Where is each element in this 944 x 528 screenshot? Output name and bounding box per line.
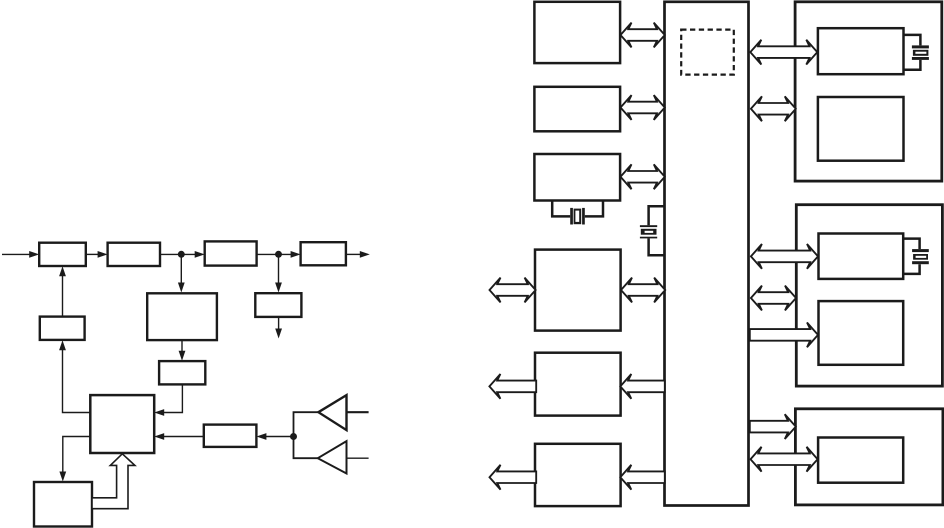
arrowhead into block E [178, 283, 185, 293]
arrowhead into block B [98, 251, 108, 258]
block R3 (osc block) [534, 154, 620, 201]
block D (output stage) [301, 242, 346, 265]
arrowhead into block I right side (bottom) [154, 433, 164, 440]
inner block M1b [818, 97, 904, 161]
container module 2 [796, 205, 942, 386]
double arrow MCU-module1 [751, 96, 796, 121]
arrowhead into block C [195, 251, 205, 258]
crystal Y2 body [641, 229, 657, 235]
buffer amp 1 (triangle) [318, 395, 346, 430]
arrow MCU to R6 [620, 465, 665, 490]
block E (detector) [147, 293, 217, 340]
crystal Y3 bracket [903, 35, 921, 46]
arrowhead into K top [59, 472, 66, 482]
arrow MCU to M2b [750, 323, 818, 348]
crystal Y3 body [913, 50, 929, 56]
inner block M3a [818, 438, 903, 483]
double arrow R2-MCU [621, 95, 665, 120]
container module 3 [795, 409, 943, 505]
junction node 3 [290, 433, 297, 440]
crystal Y4 plate top [912, 249, 929, 252]
wire B to C [160, 253, 197, 255]
wire bracket to buffers [294, 412, 319, 436]
crystal Y2 bracket [649, 206, 665, 225]
wire H down-left elbow to block I [163, 384, 182, 412]
crystal Y1 plate right [582, 208, 585, 225]
wire D to output [346, 253, 362, 255]
crystal Y2 plate top [640, 225, 657, 227]
wire block I to K elbow [63, 437, 91, 475]
double arrow MCU-M3a [751, 447, 818, 472]
wire junction1 down to block E [180, 254, 182, 285]
block K (reference) [34, 482, 92, 527]
crystal Y1 bracket [552, 200, 570, 217]
wire input signal [2, 253, 31, 255]
inner block M2a [819, 234, 904, 279]
crystal Y2 plate bottom [640, 237, 657, 239]
arrowhead into block F [275, 283, 282, 293]
central MCU block [665, 2, 749, 506]
wire bracket to buffer 2 [294, 437, 318, 459]
wire F down output [278, 317, 280, 331]
wire G up to block A [62, 273, 64, 317]
arrowhead into G bottom [59, 340, 66, 350]
crystal Y3 plate bottom [912, 57, 929, 60]
block I (control logic) [90, 395, 154, 453]
block A (input stage) [39, 243, 86, 266]
inner block M2b [819, 301, 904, 365]
double arrow MCU-M2a [751, 244, 818, 269]
wire J to I [163, 436, 204, 438]
arrow R6 output left [490, 465, 537, 490]
wire junction2 down to block F [278, 254, 280, 285]
container module 1 [795, 2, 942, 181]
crystal Y3 plate top [912, 45, 929, 48]
double arrow MCU-module2 [751, 286, 796, 311]
double arrow R3-MCU [621, 164, 665, 189]
arrowhead F output [275, 329, 282, 339]
block R5 (driver out 1) [535, 353, 621, 416]
crystal Y4 plate bottom [912, 261, 929, 264]
crystal Y1 plate left [570, 208, 573, 225]
buffer amp 2 (triangle) [318, 441, 347, 473]
block G (gain ctl) [40, 317, 85, 340]
arrow MCU to R5 [620, 374, 665, 399]
arrowhead into block H [179, 351, 186, 361]
block R6 (driver out 2) [535, 444, 621, 506]
wire block I to G elbow [63, 347, 91, 413]
double arrow R1-MCU [621, 23, 665, 48]
open arrow K to I [92, 454, 135, 509]
block R4 (transceiver) [535, 250, 621, 331]
block B (filter stage) [108, 243, 160, 266]
junction node 1 [178, 251, 185, 258]
arrowhead into block J [256, 433, 266, 440]
junction node 2 [275, 251, 282, 258]
inner block M1a [818, 28, 904, 74]
wire buffer2 input right [347, 457, 369, 459]
block H (hold) [159, 361, 205, 384]
double arrow R4 external [490, 278, 536, 303]
arrowhead into A bottom [59, 266, 66, 276]
arrowhead output [360, 251, 370, 258]
double arrow MCU-M1a [750, 40, 817, 65]
arrowhead into block A [29, 251, 39, 258]
block R2 (peripheral 2) [534, 87, 620, 132]
dashed core box [681, 30, 734, 75]
double arrow R4-MCU [621, 278, 665, 303]
block C (mixer stage) [205, 241, 257, 265]
block R1 (peripheral 1) [534, 2, 620, 63]
arrow R5 output left [489, 374, 536, 399]
crystal Y1 body [574, 209, 582, 225]
wire node3 to J [265, 436, 294, 438]
arrowhead into block I right side (top) [154, 409, 164, 416]
arrowhead into block D [291, 251, 301, 258]
wire buffer1 input right [347, 411, 369, 413]
wire A to B [86, 253, 99, 255]
block F (level detect) [255, 293, 301, 317]
block J (divider) [204, 425, 257, 447]
wire E down to block H [181, 340, 183, 354]
crystal Y4 body [913, 254, 928, 260]
crystal Y4 bracket [903, 239, 920, 250]
wire C to D [257, 253, 293, 255]
arrow MCU to module3 [750, 414, 796, 439]
